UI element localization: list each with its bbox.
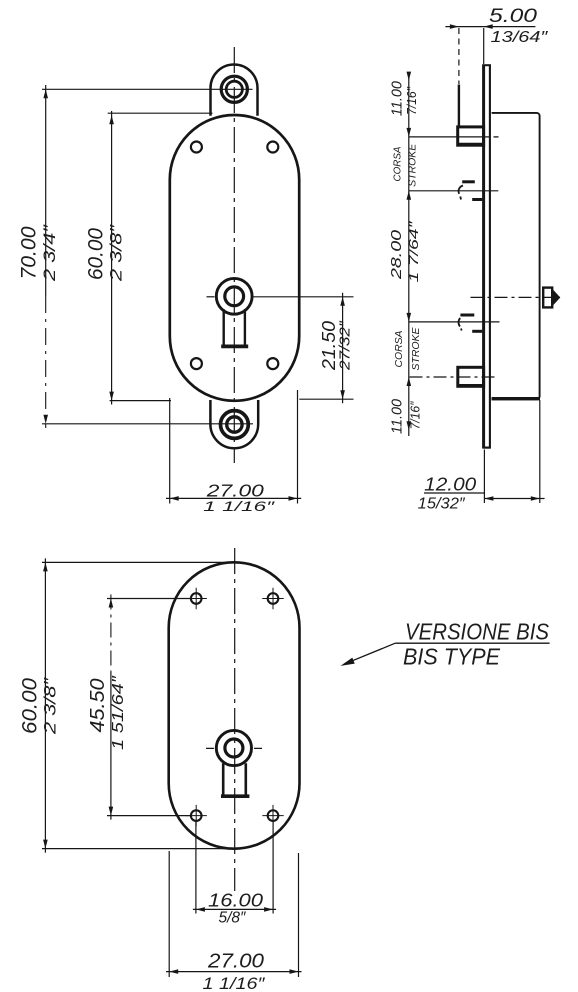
bottom tab outer circle [221, 411, 249, 439]
top tab outer circle [221, 76, 247, 102]
dim 45.50 extension bottom [107, 815, 190, 817]
faceplate bottom cap [482, 447, 491, 449]
hole bottom-left cross [186, 805, 207, 826]
dim 60.00 line view3 [44, 558, 46, 852]
screw hole bottom-right view1 [267, 358, 278, 369]
svg-text:5.00: 5.00 [489, 6, 538, 27]
lock body box [492, 113, 540, 399]
keyhole shaft bottom bar view3 [221, 794, 249, 798]
dim 60.00 arrow bottom view3 [43, 840, 48, 849]
side dim chain line [408, 77, 410, 437]
dim 60.00 arrow top view3 [43, 562, 48, 571]
upper stroke phantom dot [459, 197, 462, 200]
dim 45.50 extension top [107, 598, 190, 600]
svg-text:1 1/16″: 1 1/16″ [203, 974, 266, 992]
dim 45.50 line lower solid [110, 672, 112, 820]
svg-text:13/64″: 13/64″ [491, 29, 549, 46]
dim 12.00 text underline [424, 492, 484, 494]
dim 12.00 extension right [539, 400, 541, 503]
keyhole outer circle view1 [216, 278, 252, 314]
top bolt head [458, 127, 484, 145]
svg-text:60.00: 60.00 [19, 678, 42, 734]
upper stroke phantom bar 1 [462, 180, 475, 183]
bottom bolt head bottom thick [457, 384, 484, 388]
dim 27.00 extension right view3 [298, 853, 300, 977]
centerline vertical view1 [233, 47, 235, 463]
hole top-left cross [186, 588, 207, 609]
dim 5.00 arrow left outside [450, 24, 459, 29]
dim 12.00 arrow right [531, 496, 540, 501]
hole bottom-right cross [262, 805, 283, 826]
dim 27.00 extension left [169, 398, 171, 504]
faceplate side view right edge [489, 65, 491, 448]
dim 21.50 arrow top [340, 297, 345, 306]
dim 12.00 line [484, 498, 544, 500]
svg-text:CORSA: CORSA [393, 331, 405, 368]
dim 27.00 arrow left [170, 496, 179, 501]
keyhole shaft view3 [223, 763, 246, 795]
svg-text:5/8″: 5/8″ [219, 910, 246, 927]
svg-text:7/16″: 7/16″ [408, 401, 423, 429]
svg-text:27/32″: 27/32″ [337, 320, 354, 371]
dim 70.00 arrow bottom [43, 415, 48, 424]
svg-text:2 3/8″: 2 3/8″ [41, 677, 60, 736]
keyhole outer circle view3 [216, 730, 251, 765]
dim 27.00 line view1 [166, 497, 301, 499]
svg-text:1 7/64″: 1 7/64″ [406, 221, 421, 283]
faceplate side view left edge [482, 65, 485, 448]
dim 70.00 line upper solid [45, 85, 47, 296]
keyhole horizontal center tick view1 [207, 296, 215, 298]
callout leader arrowhead [341, 658, 355, 666]
lower stroke phantom bar 2 [472, 330, 482, 333]
dim 27.00 extension right [297, 390, 299, 504]
hole bottom-left view3 [191, 810, 202, 821]
top rod extension dashed [458, 28, 460, 84]
screw hole bottom-left view1 [191, 358, 202, 369]
dim 12.00 arrow left [484, 496, 493, 501]
keyhole inner circle view1 [225, 287, 244, 306]
dim 27.00 line view3 [166, 971, 302, 973]
dim 16.00 arrow left [196, 907, 205, 912]
dim 21.50 extension top (keyhole centerline) [253, 296, 354, 298]
dim 45.50 arrow bottom [109, 807, 114, 816]
top bolt head bottom thick [457, 143, 484, 147]
svg-text:11.00: 11.00 [389, 80, 406, 116]
dim 12.00 extension left [483, 450, 485, 504]
centerline vertical view3 [234, 548, 236, 891]
svg-text:2 3/8″: 2 3/8″ [107, 224, 126, 283]
svg-text:STROKE: STROKE [410, 327, 422, 371]
top mounting tab view1 [211, 64, 258, 115]
keyhole level centerline side view [471, 296, 561, 298]
dim 5.00 line [445, 26, 535, 28]
lower stroke phantom curl [459, 318, 461, 327]
spindle boss [543, 288, 552, 308]
side chain arrow at 377 up [407, 377, 412, 386]
dim 16.00 line [193, 908, 276, 910]
svg-text:VERSIONE BIS: VERSIONE BIS [405, 619, 550, 645]
bottom tab inner circle [227, 417, 242, 432]
dim 16.00 arrow right [264, 907, 273, 912]
dim 60.00 line view1 [111, 111, 113, 405]
svg-text:11.00: 11.00 [389, 398, 406, 434]
keyhole horizontal tick view3 [206, 747, 262, 749]
dim 21.50 line [342, 293, 344, 403]
side chain arrow at 80 [407, 72, 412, 81]
plate oval view1 [170, 115, 299, 401]
keyhole shaft view1 [224, 309, 245, 346]
svg-text:STROKE: STROKE [407, 143, 419, 187]
spindle tip triangle [551, 288, 560, 307]
top bolt center extension line [409, 136, 490, 138]
dim 60.00 arrow bottom [109, 392, 114, 401]
dim 60.00 extension top [108, 112, 213, 114]
hole top-right view3 [268, 593, 279, 604]
bottom mounting tab view1 [210, 400, 258, 448]
bottom bolt head [458, 367, 484, 386]
lower stroke phantom dot [460, 329, 463, 331]
bottom bolt centerline dash-dot [410, 376, 498, 378]
svg-text:28.00: 28.00 [388, 229, 405, 280]
dim 60.00 extension bottom [110, 400, 171, 402]
hole top-left view3 [191, 593, 202, 604]
keyhole shaft bottom bar view1 [221, 344, 248, 348]
hole bottom-right view3 [268, 810, 279, 821]
faceplate top cap [482, 64, 491, 66]
side chain arrow at 136.9 down [407, 128, 412, 137]
svg-text:7/16″: 7/16″ [404, 87, 419, 115]
lower stroke phantom bar 1 [460, 314, 474, 317]
dim 60.00 extension top view3 [42, 561, 230, 563]
svg-text:70.00: 70.00 [17, 226, 41, 279]
dim 60.00 arrow top [109, 115, 114, 124]
callout leader line [344, 643, 395, 664]
screw hole top-left view1 [191, 142, 202, 153]
dim 70.00 extension bottom [42, 423, 253, 425]
svg-text:15/32″: 15/32″ [418, 496, 466, 513]
dim 28.00 extension bottom [409, 321, 500, 323]
dim 16.00 extension right [272, 822, 274, 914]
svg-text:CORSA: CORSA [392, 147, 404, 182]
keyhole inner circle view3 [225, 739, 243, 757]
dim 21.50 arrow bottom [340, 390, 345, 399]
dim 5.00 extension right [483, 28, 485, 64]
dim 28.00 extension top [409, 190, 499, 192]
svg-text:1 1/16″: 1 1/16″ [203, 498, 276, 514]
upper stroke phantom curl [459, 186, 463, 194]
svg-text:BIS TYPE: BIS TYPE [403, 644, 501, 670]
dim 5.00 arrow right outside [484, 24, 493, 29]
side chain arrow at 190.8 up [407, 191, 412, 200]
svg-text:27.00: 27.00 [207, 951, 264, 973]
screw hole top-right view1 [267, 142, 278, 153]
side chain arrow at 321.9 down [407, 313, 412, 322]
lock body bottom thick edge [492, 397, 540, 400]
svg-text:2 3/4″: 2 3/4″ [40, 224, 59, 283]
svg-text:1 51/64″: 1 51/64″ [110, 674, 127, 750]
dim 45.50 line upper dash-dot [110, 595, 112, 673]
svg-text:12.00: 12.00 [424, 475, 476, 495]
dim 27.00 arrow left view3 [169, 969, 178, 974]
top bolt center dash right of plate [494, 136, 499, 138]
plate oval view3 [169, 562, 300, 848]
upper stroke phantom bar 2 [472, 198, 482, 201]
callout underline [395, 642, 549, 644]
top rod front edge [458, 85, 460, 128]
dim 27.00 extension left view3 [168, 851, 170, 977]
dim 27.00 arrow right view3 [290, 969, 299, 974]
dim 16.00 extension left [195, 822, 197, 914]
dim 70.00 line lower dash-dot [45, 296, 47, 428]
top tab inner circle [226, 81, 242, 97]
svg-text:16.00: 16.00 [208, 891, 263, 911]
dim 60.00 extension bottom view3 [42, 848, 225, 850]
dim 27.00 arrow right [289, 496, 298, 501]
side chain arrow at 430 down [407, 421, 412, 430]
svg-text:60.00: 60.00 [84, 228, 108, 280]
dim 70.00 arrow top [43, 89, 48, 98]
dim 21.50 extension bottom [299, 398, 353, 400]
dim 45.50 arrow top [109, 599, 114, 608]
hole top-right cross [262, 588, 283, 609]
dim 70.00 extension top [42, 88, 253, 90]
svg-text:45.50: 45.50 [87, 679, 109, 733]
